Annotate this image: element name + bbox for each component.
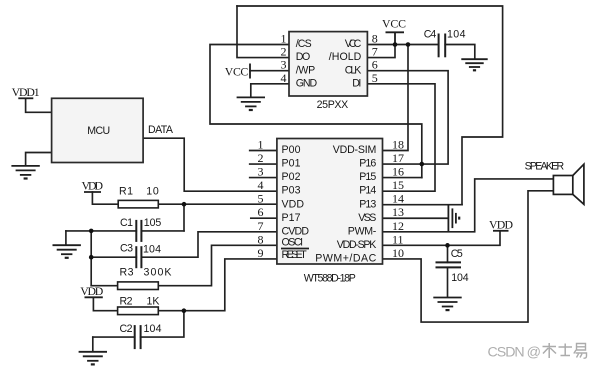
node junction R2 C2 [182,308,187,313]
node junction VCC stem pin 8 [393,42,398,47]
svg-text:3: 3 [281,58,287,72]
watermark hanzi shi [559,344,573,356]
wire C4 to ground [445,45,475,59]
svg-text:P00: P00 [282,144,301,156]
ground sideways at VSS pin 13 [448,205,459,232]
wire ground stem C1 row [65,231,67,244]
svg-text:7: 7 [372,45,378,59]
wire GND pin 4 to ground [251,84,289,97]
node junction C3 left [89,255,94,260]
VDD symbol right of C5 [493,230,509,232]
node junction C5 at pin 11 [445,243,450,248]
wire C3 right to CVDD pin 7 [141,232,277,257]
ground at C5 [433,298,461,311]
svg-text:2: 2 [258,151,264,165]
svg-text:P15: P15 [359,171,376,183]
VCC symbol at /WP [249,64,251,79]
svg-text:17: 17 [392,151,404,165]
svg-text:/WP: /WP [296,64,316,76]
wire DO to P13 top loop [237,6,503,205]
wire VDD1 to MCU [26,98,52,112]
capacitor C3 plates [136,246,141,268]
resistor R1 [118,200,158,208]
svg-text:5: 5 [372,71,378,85]
svg-text:VSS: VSS [358,212,376,224]
svg-text:C4: C4 [424,29,437,41]
svg-text:DO: DO [296,51,311,63]
svg-text:VCC: VCC [382,17,406,31]
svg-text:P14: P14 [359,185,376,197]
svg-text:DATA: DATA [148,124,174,136]
svg-text:25PXX: 25PXX [317,99,349,111]
wire ground stem C2 [92,337,94,351]
wire P16 pin 17 to CLK pin 6 [367,71,448,164]
svg-text:4: 4 [281,71,287,85]
svg-text:/CS: /CS [296,38,312,50]
capacitor C1 plates [136,220,141,242]
node junction /CS net at pin 17 [420,162,425,167]
svg-text:SPEAKER: SPEAKER [525,160,565,172]
svg-text:1: 1 [281,32,287,46]
wire P00 pin 1 stub [250,150,277,152]
svg-text:104: 104 [447,29,466,41]
svg-text:6: 6 [372,58,378,72]
wire MCU to ground [26,153,52,165]
svg-text:R1: R1 [119,186,133,198]
wire P13 pin 14 [383,204,463,206]
wire R1 to VDD pin 5 [158,203,277,205]
svg-text:VDD: VDD [80,284,103,298]
VDD symbol above R1 [84,191,101,193]
svg-text:4: 4 [258,178,264,192]
svg-text:P13: P13 [359,198,376,210]
wire VDD symbol to R1 [92,192,118,204]
wire P15 pin 16 [383,177,422,179]
svg-text:1K: 1K [147,296,160,308]
capacitor C2 plates [135,325,141,349]
VDD symbol above R2 [85,296,103,298]
node junction R1 VDD pin 5 [182,202,187,207]
svg-text:18: 18 [392,138,404,152]
svg-text:16: 16 [392,165,404,179]
svg-text:VDD1: VDD1 [12,85,40,99]
svg-text:VDD-SIM: VDD-SIM [333,144,377,156]
svg-text:104: 104 [143,244,161,256]
svg-text:P16: P16 [359,158,376,170]
capacitor C5 plates [436,262,462,267]
svg-text:11: 11 [392,232,404,246]
svg-text:CSDN @: CSDN @ [488,344,542,360]
svg-text:6: 6 [258,205,264,219]
svg-text:OSCI: OSCI [282,237,304,249]
U1 RESET overline [281,248,309,250]
svg-text:104: 104 [144,323,162,335]
svg-text:P03: P03 [282,185,301,197]
wire PWM- pin 12 to speaker top [383,179,554,232]
svg-text:13: 13 [392,205,404,219]
svg-text:8: 8 [258,232,264,246]
svg-text:P17: P17 [282,212,301,224]
wire VCC pin 8 to C4 [367,44,438,46]
svg-text:10: 10 [146,186,159,198]
svg-text:RESET: RESET [282,249,308,261]
wire R2 right to RESET pin 9 [158,259,277,311]
MCU U3 box [52,98,144,162]
25PXX U2 box [289,32,367,96]
svg-text:105: 105 [144,217,162,229]
wire /HOLD pin 7 to VCC [367,45,395,58]
svg-text:7: 7 [258,219,264,233]
wire VDD-SPK pin 11 to VDD [383,231,501,245]
wire VDD node down to C1 [183,204,185,231]
wire P17 pin 6 stub [251,217,277,219]
watermark hanzi mu [543,343,557,358]
svg-text:10: 10 [392,246,404,260]
svg-text:P01: P01 [282,158,301,170]
svg-text:DI: DI [352,77,361,89]
VDD1 symbol at MCU [18,97,33,99]
wire C2 left to ground [93,336,135,338]
svg-text:VCC: VCC [225,65,249,79]
node junction C1 left [89,229,94,234]
svg-text:CLK: CLK [345,64,362,76]
node junction pin 8 to pin 18 [406,42,411,47]
wire DO pin 2 to top loop [237,6,289,58]
svg-text:VDD: VDD [282,198,305,210]
wire P02 pin 3 stub [250,177,277,179]
resistor R2 [118,307,159,315]
wire R3 right to OSCI pin 8 [158,245,277,285]
svg-text:C3: C3 [120,243,133,255]
svg-text:2: 2 [281,45,287,59]
capacitor C4 plates [439,34,446,58]
resistor R3 [118,282,159,290]
wire C1 right up to VDD node [141,230,184,232]
svg-text:WT588D-18P: WT588D-18P [304,273,356,285]
svg-text:9: 9 [258,246,264,260]
svg-text:VDD: VDD [82,179,104,193]
svg-text:R3: R3 [120,267,134,279]
svg-text:P02: P02 [282,171,301,183]
svg-text:C5: C5 [451,248,463,260]
svg-text:14: 14 [392,192,404,206]
svg-text:C1: C1 [120,217,133,229]
wire bus C1 to R3 [90,231,92,286]
WT588D-18P U1 box [277,139,383,265]
watermark hanzi yi [574,344,587,359]
wire DATA MCU to P03 pin 4 [143,138,277,191]
svg-text:R2: R2 [120,296,133,308]
wire C5 stem top [447,245,449,262]
ground at C2 [79,352,107,365]
svg-text:MCU: MCU [87,125,110,137]
svg-text:PWM+/DAC: PWM+/DAC [315,253,376,265]
speaker SPEAKER [553,164,584,204]
ground at 25PXX GND pin 4 [237,97,265,110]
wire C5 stem bottom to ground [447,267,449,296]
svg-text:3: 3 [258,165,264,179]
svg-text:300K: 300K [144,267,172,279]
ground under MCU [11,166,39,179]
wire C3 left [91,256,136,258]
svg-text:104: 104 [451,272,469,284]
svg-text:VDD: VDD [489,218,513,232]
wire VDD symbol to R2 [93,297,117,310]
svg-text:VDD-SPK: VDD-SPK [337,239,377,251]
wire bus to R3 left [91,285,117,287]
wire /CS pin 1 to P15 [210,45,422,178]
svg-text:5: 5 [258,192,264,206]
svg-text:CVDD: CVDD [282,225,310,237]
svg-text:GND: GND [296,77,318,89]
wire VCC to /WP pin 3 [250,70,289,72]
svg-text:1: 1 [258,138,264,152]
ground at C4 [461,59,487,70]
svg-text:12: 12 [392,219,404,233]
svg-text:VCC: VCC [345,38,362,50]
wire C2 right up to R2 node [141,311,184,337]
svg-text:8: 8 [372,32,378,46]
wire P01 pin 2 stub [250,163,277,165]
wire ground to C1 left [66,230,136,232]
wire PWM+/DAC pin 10 to speaker bottom [383,191,554,322]
ground at C1 row [53,245,81,258]
svg-text:15: 15 [392,178,404,192]
VCC symbol top [386,32,405,44]
wire P14 pin 15 to DI pin 5 [367,84,435,191]
wire VSS pin 13 to ground [383,217,449,219]
svg-text:C2: C2 [120,323,133,335]
svg-text:/HOLD: /HOLD [329,51,362,63]
wire VCC to VDD-SIM pin 18 [383,45,409,151]
svg-text:PWM-: PWM- [348,225,377,237]
